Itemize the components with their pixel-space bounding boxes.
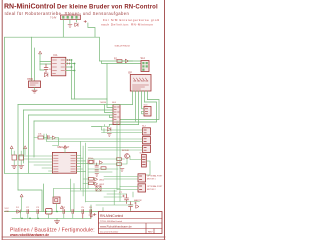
component on rail: [46, 209, 53, 215]
connector K7: [143, 145, 151, 152]
power connector K1: [61, 15, 81, 20]
stubs between rails: [20, 212, 72, 219]
red pin dots IC1 right: [68, 59, 70, 64]
gnd center cluster: [120, 169, 124, 172]
svg-text:Für S/M Einsteigerkurse groß: Für S/M Einsteigerkurse groß: [103, 18, 160, 22]
wire vertical x107 down: [106, 64, 108, 100]
wire IC1 left pair: [40, 62, 51, 71]
resistor R3: [101, 167, 106, 170]
svg-text:RN-MiniControl: RN-MiniControl: [4, 4, 55, 11]
connector K11: [138, 184, 146, 192]
crystal Q1: [88, 160, 94, 164]
gnd serial: [129, 213, 133, 216]
svg-text:C6: C6: [89, 207, 93, 209]
svg-text:D1: D1: [16, 207, 20, 209]
title block frame: [99, 212, 163, 234]
LED arrows: [95, 178, 98, 186]
plus marks: [123, 195, 137, 204]
svg-text:7805: 7805: [27, 77, 33, 81]
svg-text:MOTOR 2: MOTOR 2: [147, 189, 156, 191]
reset diode D3: [53, 136, 56, 139]
svg-text:TITLE: RN-MiniControl: TITLE: RN-MiniControl: [100, 220, 123, 223]
svg-text:ISP: ISP: [128, 72, 132, 75]
right column connector K4: [144, 107, 151, 117]
wire left verticals feed: [92, 127, 105, 133]
resistor R4: [117, 158, 122, 161]
connector K2 prog: [141, 61, 149, 72]
connector K10: [138, 174, 146, 182]
red dot K1: [84, 20, 87, 22]
diode crystal right: [100, 161, 103, 164]
wire bus horizontal A y104: [18, 104, 133, 106]
wire SL8 bottom: [92, 125, 110, 127]
capacitor C1: [44, 64, 48, 73]
IC1 right pin stubs: [66, 60, 75, 71]
cap C6: [27, 210, 29, 214]
ground below IC3: [32, 88, 37, 94]
gnd below SL8 diode: [107, 134, 111, 137]
wire left horizontal y173: [4, 172, 58, 174]
diode D2 near K1: [75, 23, 78, 26]
ground crystal: [95, 174, 99, 177]
buzzer SP1: [53, 197, 60, 204]
svg-text:SL4: SL4: [141, 57, 146, 60]
reset cap C3: [48, 136, 50, 140]
cap C8: [63, 210, 65, 214]
vcc arrow left A: [10, 146, 13, 149]
svg-text:SL2: SL2: [142, 125, 147, 127]
wire buzzer stubs: [54, 189, 57, 212]
svg-text:RN-MiniControl: RN-MiniControl: [100, 214, 123, 218]
wire bus horizontal C y115: [29, 114, 114, 116]
gnd mark below K1 pin2: [68, 25, 72, 28]
diode D4 on rail: [17, 210, 20, 213]
LED row resistors: [89, 178, 94, 181]
svg-text:BC548: BC548: [122, 150, 129, 152]
svg-text:7-14V: 7-14V: [50, 17, 57, 20]
svg-text:10k: 10k: [38, 134, 42, 136]
LED1: [126, 59, 129, 63]
wire ISP verticals down: [133, 91, 148, 125]
junction dots IC1: [71, 59, 73, 61]
arrow on rail: [61, 206, 64, 209]
page border left: [1, 0, 3, 240]
svg-text:OPTIONAL PORT: OPTIONAL PORT: [147, 175, 163, 178]
vcc arrow left B: [24, 146, 27, 149]
ISP connector K3: [130, 75, 151, 92]
svg-text:nach Definition: RN-Minimum: nach Definition: RN-Minimum: [101, 23, 154, 27]
connector K5: [143, 128, 151, 135]
wire bus horizontal D y121: [34, 120, 113, 122]
bottom rail 2: [12, 205, 91, 218]
page border bottom: [2, 236, 165, 238]
svg-text:C4: C4: [62, 207, 66, 209]
wire K9 left: [130, 156, 150, 175]
wire wrap right outer: [120, 100, 159, 120]
cap C13 on rail: [90, 210, 92, 219]
MCU left pin wires to bus: [18, 156, 52, 171]
wire main top/left loop: [4, 37, 141, 173]
wire second line to prog connector: [102, 61, 142, 64]
rail junction dots: [21, 218, 23, 220]
wire MCU top stub: [64, 148, 66, 153]
svg-text:www.Robotikhardware.de: www.Robotikhardware.de: [100, 225, 132, 229]
MCU right pin stubs: [77, 156, 89, 172]
svg-text:www.robotikhardware.de: www.robotikhardware.de: [9, 233, 49, 237]
jumper box: [96, 186, 101, 191]
svg-text:C3: C3: [36, 207, 40, 209]
ground below rail2: [54, 218, 59, 223]
cap C12 on rail: [82, 210, 84, 219]
svg-text:IC1: IC1: [54, 53, 59, 57]
svg-text:C2: C2: [26, 207, 30, 209]
diode below SL8: [108, 128, 111, 132]
cap C7: [37, 210, 39, 214]
wire pairs to K5 K6 K7: [44, 130, 143, 150]
connector K6: [143, 137, 151, 144]
wire ISP bottom exit: [109, 124, 138, 126]
wire K4 stubs: [142, 109, 145, 114]
red marks at rail2 corner: [89, 213, 96, 216]
reset resistor R2: [38, 136, 44, 139]
voltage regulator IC3 7805: [29, 81, 41, 88]
svg-text:MOTOR 1: MOTOR 1: [147, 178, 156, 180]
wire bottom center duo y188.5/191: [54, 189, 120, 192]
diode D1: [45, 73, 48, 77]
MCU IC2 box: [52, 152, 76, 173]
wire LED row: [83, 179, 95, 184]
wire center cluster: [88, 159, 127, 165]
wire buttons to bus: [14, 151, 21, 155]
resistor R1 top right: [117, 60, 122, 63]
button S1: [12, 155, 17, 168]
wire extra rows: [88, 169, 118, 172]
wire bus horizontal B y110: [24, 109, 114, 111]
svg-text:VCC: VCC: [5, 208, 10, 210]
svg-text:MEGA8-P: MEGA8-P: [58, 145, 70, 149]
wire wrap right inner: [120, 102, 157, 122]
wire horizontal y99: [72, 98, 108, 100]
wire pairs K10 K11: [104, 177, 138, 190]
wire reset net: [34, 138, 59, 146]
diode D5: [136, 205, 139, 208]
wire K1 right exit: [88, 23, 95, 37]
vcc arrow rail: [20, 194, 23, 197]
wire K1 stubs: [63, 20, 76, 38]
svg-text:REV: REV: [148, 231, 153, 233]
svg-text:Document Number: Document Number: [100, 230, 119, 233]
electrolytic cap C10: [125, 194, 129, 204]
cap C9: [72, 210, 74, 214]
wire R1/LED segment: [122, 60, 133, 62]
wire serial area: [86, 187, 140, 213]
button S2: [19, 155, 24, 168]
svg-text:GND: GND: [5, 211, 10, 213]
wire verticals from IC1 right going down: [72, 60, 75, 99]
caps C4 C5: [95, 163, 98, 171]
svg-text:MOSI: MOSI: [101, 102, 107, 104]
wire MCU right verticals: [81, 142, 89, 203]
wire regulator input verticals: [31, 37, 33, 81]
svg-text:SL8: SL8: [112, 102, 117, 104]
svg-text:Der kleine Bruder von RN-Contr: Der kleine Bruder von RN-Control: [57, 4, 158, 10]
svg-text:SUB-D9 RS232: SUB-D9 RS232: [115, 46, 131, 48]
bottom rail 1: [4, 211, 103, 213]
tall component K9: [142, 155, 147, 168]
transistor T1: [125, 154, 130, 159]
page border right: [164, 0, 166, 240]
tall connector SL8: [113, 105, 120, 125]
vcc arrow power: [39, 51, 42, 54]
wire bus rows extra: [105, 99, 114, 118]
svg-text:OPTIONAL PORT: OPTIONAL PORT: [147, 185, 163, 188]
electrolytic cap C11: [129, 202, 133, 211]
svg-text:C5: C5: [81, 207, 85, 209]
wire y190 stub: [18, 190, 42, 212]
wire bus left verticals: [18, 105, 44, 212]
IC1 box: [51, 57, 66, 76]
svg-text:LED1: LED1: [99, 180, 105, 182]
wire below K11: [132, 192, 134, 197]
resistor R5: [117, 163, 122, 166]
